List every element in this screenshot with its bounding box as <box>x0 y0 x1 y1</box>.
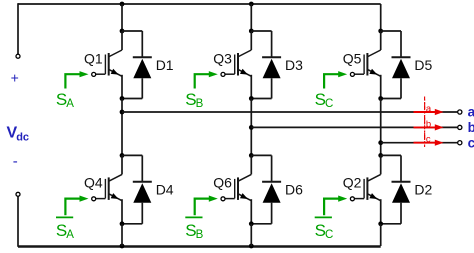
wire left DC+ lead <box>17 3 19 54</box>
junction leg 3 upper emitter node <box>378 96 383 101</box>
gate terminal Q2 <box>350 197 354 201</box>
label Q3 <box>213 50 232 66</box>
wire top DC+ rail <box>18 3 381 5</box>
wire leg 1 from top rail <box>121 4 123 31</box>
junction leg 2 upper collector node <box>249 29 254 34</box>
svg-text:D2: D2 <box>414 182 432 198</box>
svg-text:D1: D1 <box>156 57 174 73</box>
gate terminal Q1 <box>92 72 96 76</box>
junction leg 1 lower emitter node <box>120 221 125 226</box>
svg-text:B: B <box>196 98 204 110</box>
junction leg 3 lower collector node <box>378 153 383 158</box>
transistor Q5 (IGBT) <box>355 31 381 99</box>
svg-text:Q5: Q5 <box>343 50 362 66</box>
transistor Q1 (IGBT) <box>96 31 122 99</box>
terminal phase c <box>458 141 462 145</box>
gate terminal Q6 <box>221 197 225 201</box>
svg-text:A: A <box>66 229 74 241</box>
label i_c (red) <box>423 129 431 145</box>
label i_a (red) <box>423 98 432 114</box>
wire leg 2 from top rail <box>250 4 252 31</box>
current probe dash-dot line <box>424 97 426 148</box>
label i_b (red) <box>423 114 431 130</box>
node phase b <box>249 125 254 130</box>
junction top rail leg B <box>249 2 254 7</box>
svg-text:a: a <box>468 105 474 120</box>
current arrow i_c <box>414 140 444 146</box>
svg-text:b: b <box>426 119 431 130</box>
junction leg 1 upper emitter node <box>120 96 125 101</box>
svg-text:a: a <box>426 103 432 114</box>
svg-text:+: + <box>11 69 19 85</box>
current arrow i_b <box>414 124 444 130</box>
gate drive S_A <box>56 71 89 110</box>
label D6 <box>285 182 303 198</box>
terminal phase b <box>458 125 462 129</box>
svg-text:C: C <box>325 98 333 110</box>
diode D6 (antiparallel) <box>251 155 281 223</box>
gate drive S_B <box>185 71 218 110</box>
svg-text:B: B <box>196 229 204 241</box>
svg-text:Q6: Q6 <box>213 175 232 191</box>
label Q5 <box>343 50 362 66</box>
gate terminal Q5 <box>350 72 354 76</box>
diode D3 (antiparallel) <box>251 31 281 99</box>
DC+ terminal <box>16 54 20 58</box>
svg-text:C: C <box>325 229 333 241</box>
label phase c (blue) <box>468 135 474 150</box>
terminal phase a <box>458 110 462 114</box>
label phase b (blue) <box>468 120 474 135</box>
wire leg 1 mid <box>121 99 123 156</box>
wire phase a output <box>122 111 457 113</box>
label Q4 <box>84 175 103 191</box>
svg-text:Q1: Q1 <box>84 50 103 66</box>
wire leg 1 to bottom rail <box>121 224 123 246</box>
wire left DC- lead <box>17 197 19 247</box>
wire phase b output <box>251 126 457 128</box>
junction leg 1 lower collector node <box>120 153 125 158</box>
junction leg 2 upper emitter node <box>249 96 254 101</box>
gate drive S_A inverted <box>56 196 89 241</box>
wire leg 2 mid <box>250 99 252 156</box>
node phase c <box>378 140 383 145</box>
gate drive S_C <box>315 71 348 110</box>
wire bottom DC- rail <box>18 245 381 247</box>
label + (blue) <box>11 69 19 85</box>
junction leg 3 upper collector node <box>378 29 383 34</box>
svg-text:b: b <box>468 120 474 135</box>
wire leg 3 from top rail <box>380 4 382 31</box>
label Q2 <box>343 175 362 191</box>
svg-text:A: A <box>66 98 74 110</box>
label D5 <box>414 57 432 73</box>
svg-text:c: c <box>468 135 474 150</box>
gate drive S_B inverted <box>185 196 218 241</box>
label D2 <box>414 182 432 198</box>
svg-text:c: c <box>426 134 431 145</box>
label D1 <box>156 57 174 73</box>
wire leg 3 mid <box>380 99 382 156</box>
current arrow i_a <box>414 109 444 115</box>
diode D5 (antiparallel) <box>381 31 411 99</box>
svg-text:D5: D5 <box>414 57 432 73</box>
gate drive S_C inverted <box>315 196 348 241</box>
svg-text:Q3: Q3 <box>213 50 232 66</box>
wire phase c output <box>381 142 458 144</box>
diode D2 (antiparallel) <box>381 155 411 223</box>
label - (blue) <box>13 153 18 170</box>
gate terminal Q3 <box>221 72 225 76</box>
transistor Q6 (IGBT) <box>225 155 251 223</box>
node phase a <box>120 110 125 115</box>
junction leg 3 lower emitter node <box>378 221 383 226</box>
junction leg 2 lower emitter node <box>249 221 254 226</box>
gate terminal Q4 <box>92 197 96 201</box>
svg-text:D3: D3 <box>285 57 303 73</box>
junction top rail leg A <box>120 2 125 7</box>
diode D1 (antiparallel) <box>122 31 152 99</box>
junction bottom rail leg B <box>249 244 254 249</box>
label Q6 <box>213 175 232 191</box>
diode D4 (antiparallel) <box>122 155 152 223</box>
junction leg 1 upper collector node <box>120 29 125 34</box>
transistor Q4 (IGBT) <box>96 155 122 223</box>
wire leg 2 to bottom rail <box>250 224 252 246</box>
svg-text:-: - <box>13 153 18 170</box>
svg-text:D6: D6 <box>285 182 303 198</box>
junction leg 2 lower collector node <box>249 153 254 158</box>
svg-text:Q4: Q4 <box>84 175 103 191</box>
junction bottom rail leg A <box>120 244 125 249</box>
transistor Q2 (IGBT) <box>355 155 381 223</box>
label Vdc (blue) <box>7 125 30 144</box>
DC- terminal <box>16 192 20 196</box>
label Q1 <box>84 50 103 66</box>
wire leg 3 to bottom rail <box>380 224 382 246</box>
svg-text:dc: dc <box>16 132 29 144</box>
label D3 <box>285 57 303 73</box>
label D4 <box>156 182 174 198</box>
transistor Q3 (IGBT) <box>225 31 251 99</box>
label phase a (blue) <box>468 105 474 120</box>
svg-text:Q2: Q2 <box>343 175 362 191</box>
svg-text:D4: D4 <box>156 182 174 198</box>
